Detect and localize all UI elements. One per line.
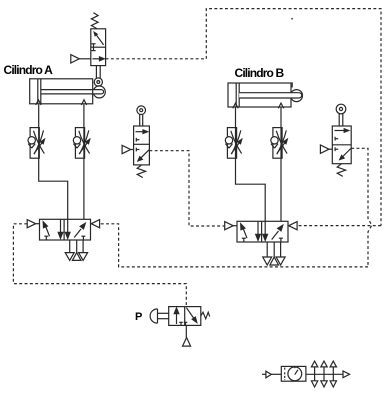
valve VA 5/2 directional valve: [27, 219, 99, 260]
svg-text:Cilindro A: Cilindro A: [4, 63, 54, 77]
valve VB 5/2 directional valve: [225, 221, 297, 265]
valve V3 roller limit valve middle: [122, 106, 149, 178]
svg-text:Cilindro B: Cilindro B: [235, 66, 285, 80]
svg-text:P: P: [135, 311, 142, 323]
throttle check valve D2: [73, 128, 90, 159]
pilot line top bus to valve VB right pilot: [296, 225, 381, 227]
pilot line bottom bus to valve VA right pilot: [100, 224, 368, 267]
stray ink dot: [291, 18, 293, 20]
wire cylinder A left port to valve VA: [39, 105, 68, 220]
throttle check valve D4: [271, 128, 288, 159]
pilot line valve V2 output to top-right bus: [106, 9, 381, 226]
valve V1 pushbutton 3/2: [150, 307, 210, 347]
air service unit Z1: [262, 361, 350, 387]
pilot line valve V3 output to valve VB left pilot: [149, 151, 224, 226]
cylinder A: [30, 79, 106, 105]
wire cylinder A right port to valve VA: [83, 105, 85, 220]
pilot line valve V4 output down right side: [351, 148, 372, 267]
wire cylinder B right port to valve VB: [280, 107, 282, 221]
wire cylinder B left port to valve VB: [236, 107, 266, 221]
valve V2 limit roller valve above cylinder A: [71, 13, 106, 87]
throttle check valve D3: [225, 128, 242, 159]
valve V4 roller limit valve right: [320, 104, 351, 176]
throttle check valve D1: [28, 128, 45, 159]
cylinder B: [228, 82, 303, 108]
pilot line P valve output to valve VA left pilot: [13, 224, 186, 307]
